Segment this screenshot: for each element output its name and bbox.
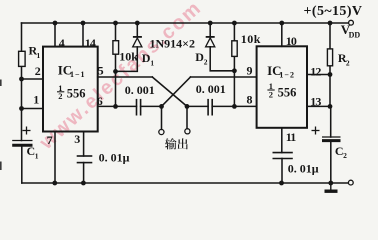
diode D1 (133, 37, 142, 47)
scan artifact left edge upper (0, 80, 2, 87)
svg-text:10k: 10k (241, 32, 261, 46)
output label (Chinese) shu (165, 138, 176, 149)
wire: C4 right lead to output node A (141, 105, 162, 107)
wire: pin 9 wire (191, 76, 257, 78)
svg-text:1: 1 (150, 58, 154, 67)
wire: bottom ground rail (22, 182, 349, 184)
capacitor C4 0.001 (137, 99, 141, 116)
IC1-2 label (267, 63, 296, 100)
junction dot R3-pin6 (113, 104, 118, 109)
junction dot R4-pin8 (232, 104, 237, 109)
resistor R3 10k (113, 41, 119, 55)
wire: pin 14 lead (82, 23, 84, 47)
diode D2 (206, 37, 215, 47)
svg-text:8: 8 (247, 93, 253, 107)
junction dot node B (185, 104, 190, 109)
wire: pin 10 lead (281, 23, 283, 46)
svg-text:0. 001: 0. 001 (125, 83, 155, 97)
wire: D2 cathode lead (209, 23, 211, 37)
wire: 10k R4 upper lead (233, 23, 235, 41)
svg-text:DD: DD (349, 31, 361, 40)
output terminal circle node A (159, 129, 164, 134)
terminal bottom right circle (348, 180, 353, 185)
svg-text:2: 2 (343, 151, 347, 160)
svg-text:12: 12 (310, 65, 321, 79)
wire: C5 to pin 8 (212, 105, 256, 107)
wire: R2 lower lead (329, 66, 331, 75)
svg-text:2: 2 (269, 89, 273, 99)
svg-text:556: 556 (67, 86, 86, 100)
watermark www.elecfans.com (35, 0, 206, 154)
wire: pin 5 output wire (98, 76, 153, 78)
junction dot D1-R3 (113, 69, 118, 74)
wire: left branch vertical (R1/C1 column) (21, 23, 23, 51)
svg-text:4: 4 (59, 36, 65, 50)
capacitor C5 0.001 (208, 99, 212, 116)
terminal VDD circle (349, 20, 354, 25)
wire: 10k R3 lower lead down to pin6 wire (115, 54, 117, 106)
capacitor C1 plus sign (23, 127, 31, 135)
svg-text:556: 556 (278, 86, 297, 100)
junction dots left column (19, 77, 24, 111)
svg-text:3: 3 (74, 132, 80, 146)
resistor R1 (19, 51, 26, 66)
resistor R4 10k (232, 41, 237, 57)
capacitor C2 plus sign (312, 127, 320, 135)
wire: pin 6 wire to C4 (98, 105, 137, 107)
wire: output stub node A (161, 106, 163, 129)
svg-text:7: 7 (47, 133, 53, 147)
wire: D1 cathode lead (136, 23, 138, 37)
svg-text:0. 01μ: 0. 01μ (99, 150, 130, 164)
wire: pin 7 lead (54, 132, 56, 184)
capacitor C6 0.01u (273, 153, 293, 159)
resistor R2 (327, 49, 332, 66)
ground symbol (325, 183, 338, 191)
wire: D2 anode link to R4 (210, 47, 234, 71)
IC1-2 556 timer U2 (257, 46, 307, 128)
svg-text:2: 2 (58, 91, 62, 101)
junction dot pin13-C2 (328, 104, 333, 109)
output label (Chinese) chu (178, 138, 188, 149)
wire: C2 lower lead (330, 140, 332, 183)
svg-text:9: 9 (247, 63, 253, 77)
wire: R2 upper lead (329, 23, 331, 49)
wire: pin13 down to C2 (330, 106, 332, 137)
IC1-1 fraction bar (57, 91, 64, 93)
svg-text:0. 01μ: 0. 01μ (288, 162, 319, 176)
svg-text:1: 1 (33, 92, 39, 106)
capacitor C1 electrolytic (12, 141, 32, 146)
wire: 10k R4 lower lead down to pin8 wire (233, 56, 235, 106)
wire: pin12 to pin13 vertical (329, 75, 331, 107)
wire: top VDD rail (22, 22, 349, 24)
IC1-1 label (58, 63, 86, 102)
svg-text:1: 1 (35, 152, 39, 161)
wire: cross link pin5 to node B (152, 77, 187, 106)
svg-text:1: 1 (37, 51, 41, 60)
junction dots top rail (53, 21, 333, 26)
svg-text:10: 10 (286, 34, 297, 48)
svg-text:1−2: 1−2 (279, 70, 295, 79)
junction dot pin12-R2 (328, 72, 333, 77)
wire: pin 3 lead to C3 (83, 132, 85, 157)
capacitor C3 0.01u (77, 156, 93, 163)
svg-text:6: 6 (97, 94, 103, 108)
svg-text:13: 13 (310, 94, 321, 108)
svg-text:1N914×2: 1N914×2 (150, 36, 196, 50)
junction dots bottom rail (52, 181, 333, 186)
wire: pin 2 lead (22, 78, 44, 80)
svg-text:2: 2 (204, 57, 208, 66)
wire: node B to C5 (187, 105, 208, 107)
IC1-2 fraction bar (267, 89, 274, 91)
capacitor C2 electrolytic (322, 137, 341, 141)
wire: pin 4 lead (54, 23, 56, 47)
wire: output stub node B (186, 106, 188, 128)
junction dot D2-R4 (232, 68, 237, 73)
junction dot node A (159, 104, 164, 109)
svg-text:5: 5 (98, 63, 104, 77)
output terminal circle node B (185, 129, 190, 134)
wire: pin 1 lead (22, 108, 44, 110)
svg-text:0. 001: 0. 001 (196, 82, 226, 96)
svg-text:1−1: 1−1 (70, 70, 86, 79)
scan artifact left edge lower (0, 162, 2, 171)
svg-text:2: 2 (35, 64, 41, 78)
svg-text:10k: 10k (119, 50, 138, 64)
wire: D1 anode link to R3 (116, 47, 138, 72)
wire: pin 12 lead (307, 74, 330, 76)
svg-text:+(5~15)V: +(5~15)V (304, 4, 363, 19)
svg-text:2: 2 (346, 58, 350, 67)
wire: cross link pin9 to node A (162, 77, 191, 106)
svg-text:11: 11 (286, 130, 296, 144)
wire: 10k R3 upper lead (115, 23, 117, 41)
wire: pin 13 lead (307, 105, 330, 107)
svg-text:14: 14 (85, 36, 96, 50)
IC1-1 556 timer U1 (43, 47, 98, 132)
wire: pin 11 lead to C6 (281, 128, 283, 153)
